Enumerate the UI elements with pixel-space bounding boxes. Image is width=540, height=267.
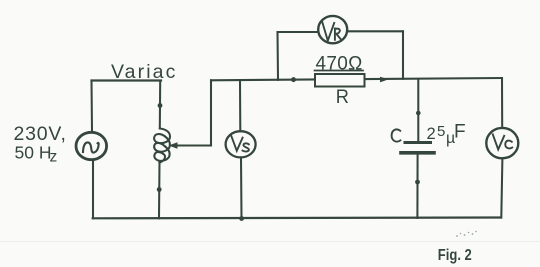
svg-text:50 H: 50 H (15, 143, 52, 163)
svg-text:Fig. 2: Fig. 2 (438, 247, 472, 264)
svg-text:z: z (50, 149, 58, 166)
svg-text:470Ω: 470Ω (316, 53, 363, 74)
svg-text:5: 5 (437, 123, 445, 140)
svg-text:F: F (454, 122, 466, 143)
svg-text:2: 2 (427, 125, 436, 143)
svg-text:Variac: Variac (111, 61, 177, 83)
svg-text:R: R (336, 87, 349, 108)
